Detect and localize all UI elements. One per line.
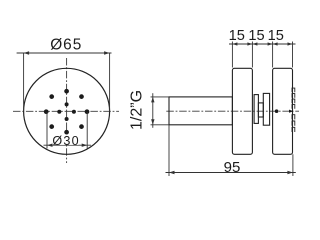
svg-text:1/2”G: 1/2”G xyxy=(128,90,145,130)
screw dot xyxy=(275,109,279,113)
centerline vertical xyxy=(66,58,68,163)
thread teeth on wall side xyxy=(292,88,295,132)
wall disc (disc2) xyxy=(273,68,293,154)
svg-text:15: 15 xyxy=(248,28,264,44)
svg-text:Ø30: Ø30 xyxy=(52,134,79,148)
dimension Ø30 xyxy=(44,112,92,149)
connector plate C xyxy=(263,93,269,125)
head disc (disc1) xyxy=(232,68,252,154)
centerline xyxy=(166,110,299,112)
svg-text:Ø65: Ø65 xyxy=(50,37,82,54)
shower arm pipe xyxy=(169,97,232,125)
dimension Ø65 xyxy=(17,53,112,112)
dimension 15 15 15 xyxy=(229,42,296,68)
svg-text:15: 15 xyxy=(229,28,245,44)
circle body Ø65 xyxy=(24,68,110,154)
nozzle dots inner ring xyxy=(57,102,76,121)
centerline horizontal xyxy=(13,110,119,112)
connector hub B xyxy=(258,103,263,117)
svg-text:15: 15 xyxy=(268,28,284,44)
svg-text:95: 95 xyxy=(224,159,241,176)
dimension 1/2"G xyxy=(151,93,170,128)
nozzle dots outer ring xyxy=(44,89,89,135)
connector plate A xyxy=(254,95,258,124)
centerline arrow at wall xyxy=(289,110,294,113)
dimension 95 xyxy=(166,125,296,176)
